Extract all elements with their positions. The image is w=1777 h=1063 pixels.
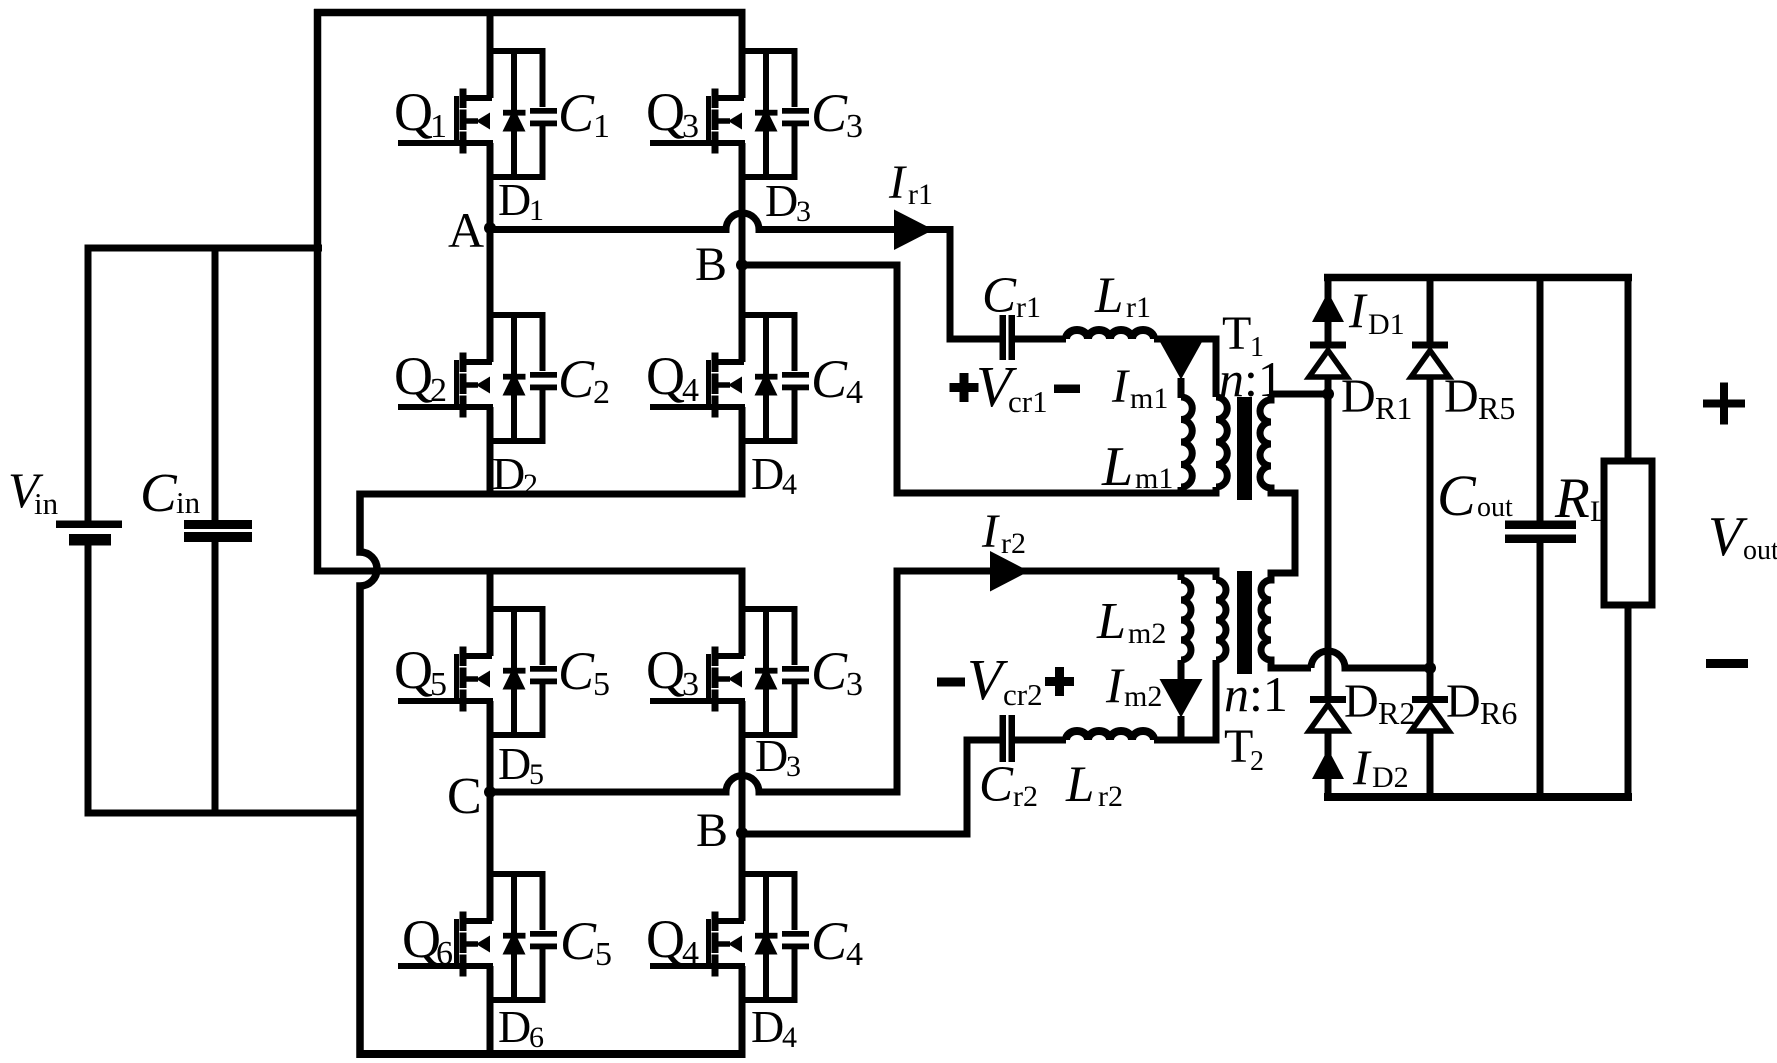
svg-text:Q: Q	[394, 82, 433, 142]
svg-text:R1: R1	[1375, 390, 1412, 426]
svg-text:I: I	[1105, 657, 1125, 713]
svg-text:m2: m2	[1128, 617, 1166, 650]
svg-text:Q: Q	[394, 346, 433, 406]
svg-text:C: C	[447, 768, 482, 825]
svg-text:1: 1	[529, 194, 544, 227]
svg-text:3: 3	[682, 666, 699, 703]
svg-text:C: C	[558, 83, 595, 143]
svg-text:cr2: cr2	[1003, 677, 1043, 712]
svg-text:Q: Q	[394, 640, 433, 700]
svg-text:r1: r1	[908, 178, 933, 211]
svg-text:L: L	[1094, 268, 1123, 324]
svg-text:L: L	[1096, 593, 1126, 650]
svg-text:r2: r2	[1098, 780, 1123, 813]
svg-text:I: I	[981, 505, 1000, 558]
svg-text:3: 3	[846, 666, 863, 703]
svg-text:5: 5	[593, 666, 610, 703]
svg-text:4: 4	[846, 936, 863, 973]
svg-text:D: D	[498, 174, 531, 225]
svg-text:C: C	[982, 268, 1017, 324]
svg-text:R5: R5	[1478, 390, 1515, 426]
svg-text:C: C	[140, 462, 178, 523]
svg-text:r1: r1	[1016, 291, 1041, 324]
svg-text:V: V	[1708, 506, 1748, 568]
svg-text:in: in	[176, 485, 201, 520]
svg-text:D: D	[1446, 675, 1481, 728]
svg-text:D1: D1	[1368, 308, 1405, 341]
svg-text:2: 2	[523, 468, 538, 501]
svg-text:n: n	[1224, 666, 1249, 722]
svg-text:out: out	[1477, 492, 1513, 523]
svg-text:5: 5	[529, 758, 544, 791]
svg-text:2: 2	[430, 372, 447, 409]
svg-text:C: C	[558, 349, 595, 409]
svg-text:3: 3	[682, 108, 699, 145]
svg-text:Q: Q	[646, 640, 685, 700]
svg-text:D: D	[492, 448, 525, 499]
svg-text:C: C	[811, 349, 848, 409]
svg-text:n: n	[1219, 351, 1244, 407]
svg-text:B: B	[696, 804, 728, 857]
svg-text:I: I	[888, 156, 907, 209]
svg-text:m1: m1	[1130, 382, 1168, 415]
svg-text:C: C	[560, 911, 597, 971]
svg-text:D: D	[498, 1001, 531, 1052]
svg-text:D: D	[498, 738, 531, 789]
svg-text:T: T	[1224, 720, 1253, 773]
svg-text:out: out	[1743, 535, 1777, 566]
svg-text:R6: R6	[1480, 695, 1517, 731]
svg-text:L: L	[1101, 436, 1133, 498]
svg-text:4: 4	[782, 1021, 797, 1054]
svg-text:D: D	[755, 730, 788, 781]
svg-text:D: D	[1341, 370, 1376, 423]
svg-text:r1: r1	[1126, 291, 1151, 324]
svg-text:2: 2	[593, 374, 610, 411]
svg-text:4: 4	[682, 372, 699, 409]
svg-text:m1: m1	[1135, 462, 1173, 495]
svg-text:B: B	[695, 238, 727, 291]
svg-text:cr1: cr1	[1008, 384, 1048, 419]
svg-text:D: D	[751, 1001, 784, 1052]
svg-text:2: 2	[1250, 746, 1264, 777]
svg-text:I: I	[1348, 282, 1368, 338]
svg-text:3: 3	[786, 750, 801, 783]
svg-text:Q: Q	[646, 346, 685, 406]
svg-text:R2: R2	[1378, 695, 1415, 731]
svg-text:C: C	[811, 83, 848, 143]
svg-text:6: 6	[436, 935, 453, 972]
svg-text:A: A	[448, 202, 484, 258]
svg-text:in: in	[34, 486, 59, 521]
svg-text:4: 4	[846, 374, 863, 411]
svg-text:C: C	[811, 641, 848, 701]
svg-text:Q: Q	[646, 909, 685, 969]
svg-text:1: 1	[430, 108, 447, 145]
svg-text:R: R	[1554, 467, 1590, 530]
svg-text:L: L	[1590, 495, 1608, 528]
svg-text:C: C	[1437, 463, 1477, 528]
svg-text:D: D	[1344, 675, 1379, 728]
svg-text:D2: D2	[1372, 761, 1409, 794]
svg-text:r2: r2	[1013, 780, 1038, 813]
svg-text::1: :1	[1249, 666, 1288, 722]
svg-text:4: 4	[682, 935, 699, 972]
svg-text:4: 4	[782, 468, 797, 501]
svg-text:r2: r2	[1001, 527, 1026, 560]
svg-text:I: I	[1111, 360, 1130, 413]
svg-text:1: 1	[593, 108, 610, 145]
svg-text:3: 3	[846, 108, 863, 145]
svg-text:5: 5	[595, 936, 612, 973]
svg-text:3: 3	[796, 195, 811, 228]
svg-text:Q: Q	[646, 82, 685, 142]
svg-text:D: D	[765, 175, 798, 226]
svg-text:D: D	[751, 448, 784, 499]
svg-text:6: 6	[529, 1021, 544, 1054]
svg-text:C: C	[558, 641, 595, 701]
svg-text:5: 5	[430, 666, 447, 703]
svg-text:m2: m2	[1124, 680, 1162, 713]
svg-text:D: D	[1444, 370, 1479, 423]
svg-text::1: :1	[1244, 351, 1283, 407]
svg-text:C: C	[811, 911, 848, 971]
svg-text:C: C	[979, 757, 1014, 813]
svg-text:L: L	[1065, 757, 1094, 813]
svg-text:I: I	[1352, 739, 1372, 795]
